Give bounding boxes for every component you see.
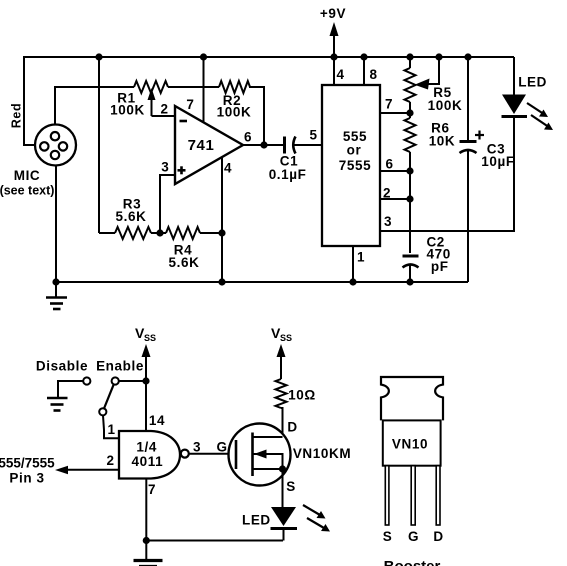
svg-text:Disable: Disable bbox=[36, 359, 88, 374]
node pin7/R5/R6 junction bbox=[406, 109, 413, 116]
label Vss (4011) bbox=[135, 325, 156, 343]
label pin 3 (4011) bbox=[193, 440, 201, 455]
wire red lead from rail to MIC bbox=[23, 56, 35, 145]
label 555/7555 bbox=[0, 456, 55, 471]
node R4 right junction bbox=[218, 229, 225, 236]
svg-text:2: 2 bbox=[161, 102, 169, 117]
label R2 bbox=[223, 93, 241, 108]
node R5 rail junction bbox=[406, 53, 413, 60]
LED D2 bbox=[271, 507, 298, 541]
NAND gate U3 1/4 4011 bbox=[119, 431, 189, 479]
svg-text:6: 6 bbox=[386, 157, 394, 172]
label R5 100K bbox=[428, 98, 463, 113]
label Red (rotated) bbox=[10, 103, 24, 128]
label pin 7 (4011) bbox=[148, 482, 156, 497]
svg-text:pF: pF bbox=[431, 259, 449, 274]
label R4 bbox=[174, 243, 192, 258]
label R6 10K bbox=[429, 134, 456, 149]
svg-text:3: 3 bbox=[193, 440, 201, 455]
label pin 6 (555) bbox=[386, 157, 394, 172]
label pin 1 (4011) bbox=[107, 422, 115, 437]
svg-text:7: 7 bbox=[385, 97, 393, 112]
svg-text:6: 6 bbox=[244, 130, 252, 145]
label or bbox=[347, 143, 362, 158]
wire R2 right drop to output bbox=[249, 86, 264, 145]
node R5 wiper rail junction bbox=[435, 53, 442, 60]
svg-text:10µF: 10µF bbox=[481, 154, 514, 169]
node pin8 rail junction bbox=[360, 53, 367, 60]
label VN10 bbox=[392, 437, 428, 452]
wire enable to Vss line bbox=[119, 380, 147, 382]
label pin 7 (741) bbox=[186, 97, 194, 112]
svg-text:1: 1 bbox=[357, 250, 365, 265]
label G bbox=[216, 440, 227, 455]
svg-text:100K: 100K bbox=[428, 98, 463, 113]
wire disable to ground bbox=[58, 380, 84, 397]
svg-text:100K: 100K bbox=[110, 103, 145, 118]
wire ground rail bbox=[56, 281, 468, 283]
label minus input bbox=[180, 120, 188, 123]
microphone MIC bbox=[35, 125, 76, 166]
label R3 bbox=[123, 197, 141, 212]
svg-text:5: 5 bbox=[310, 128, 318, 143]
wire op-amp output pin 6 bbox=[243, 144, 284, 146]
svg-text:G: G bbox=[216, 440, 227, 455]
R1 wiper arrow to pin 2 bbox=[148, 88, 156, 116]
resistor R1 bbox=[134, 81, 168, 93]
svg-text:S: S bbox=[286, 479, 296, 494]
label (see text) bbox=[0, 184, 54, 198]
svg-text:Pin 3: Pin 3 bbox=[9, 471, 44, 486]
resistor R4 bbox=[166, 227, 200, 239]
wire switch pole to pin 1 bbox=[103, 415, 119, 438]
node gate ground junction bbox=[143, 537, 150, 544]
wire pin 8 (555) bbox=[363, 57, 365, 85]
wire R1-R2 node bbox=[168, 86, 219, 88]
wire op-amp pin 3 bbox=[160, 174, 175, 233]
LED D2 light arrows bbox=[303, 505, 330, 532]
svg-text:0.1µF: 0.1µF bbox=[269, 167, 307, 182]
label R1 bbox=[117, 91, 135, 106]
wire gate output to MOSFET gate bbox=[189, 453, 236, 455]
svg-text:MIC: MIC bbox=[14, 168, 41, 183]
label pin 14 bbox=[149, 413, 165, 428]
package leg S bbox=[385, 466, 389, 525]
label pin 8 (555) bbox=[369, 67, 377, 82]
switch disable contact bbox=[83, 377, 90, 384]
label LED (top) bbox=[518, 75, 547, 90]
LED D1 light arrows bbox=[527, 103, 553, 130]
label LED (bottom) bbox=[242, 513, 271, 528]
svg-text:VN10: VN10 bbox=[392, 437, 428, 452]
svg-text:10K: 10K bbox=[429, 134, 456, 149]
resistor R3 bbox=[115, 227, 151, 239]
label R4 5.6K bbox=[169, 255, 200, 270]
label D (package) bbox=[433, 529, 443, 544]
label R2 100K bbox=[217, 105, 252, 120]
label 4011 bbox=[132, 454, 164, 469]
wire bottom ground rail bbox=[146, 540, 283, 542]
wire MIC top lead bbox=[54, 87, 134, 125]
svg-text:D: D bbox=[433, 529, 443, 544]
package leg G bbox=[411, 466, 415, 525]
svg-text:7: 7 bbox=[186, 97, 194, 112]
label Booster bbox=[384, 558, 441, 566]
wire op-amp pin 7 bbox=[203, 57, 205, 123]
label pin 2 (4011) bbox=[107, 453, 115, 468]
svg-text:1: 1 bbox=[107, 422, 115, 437]
svg-text:5.6K: 5.6K bbox=[116, 209, 147, 224]
label 10 ohm bbox=[288, 388, 316, 403]
svg-text:(see text): (see text) bbox=[0, 184, 54, 198]
wire pin 6 stub bbox=[380, 170, 410, 172]
svg-text:2: 2 bbox=[107, 453, 115, 468]
svg-text:7555: 7555 bbox=[339, 158, 371, 173]
svg-text:Red: Red bbox=[10, 103, 24, 128]
label R5 bbox=[433, 85, 451, 100]
node R3R4 junction a bbox=[156, 229, 163, 236]
capacitor C2 bbox=[403, 256, 419, 282]
wire +9V stem bbox=[330, 22, 339, 85]
wire C1 to pin 5 bbox=[295, 144, 323, 146]
label pin 6 (741) bbox=[244, 130, 252, 145]
label pin 4 (741) bbox=[224, 161, 232, 176]
ground symbol G3 bbox=[134, 541, 163, 566]
svg-text:Enable: Enable bbox=[96, 359, 144, 374]
label C2 bbox=[426, 235, 444, 250]
wire drain lead bbox=[281, 407, 283, 437]
wire pin 3 to LED bbox=[380, 230, 514, 232]
label VN10KM bbox=[293, 446, 351, 461]
label Disable bbox=[36, 359, 88, 374]
label C1 0.1uF bbox=[269, 167, 307, 182]
resistor R2 bbox=[219, 81, 250, 93]
svg-text:LED: LED bbox=[242, 513, 271, 528]
capacitor C3 bbox=[460, 57, 477, 282]
label pin 7 (555) bbox=[385, 97, 393, 112]
label pin 2 (741) bbox=[161, 102, 169, 117]
label C2 pF bbox=[431, 259, 449, 274]
package tab outline bbox=[381, 377, 443, 420]
capacitor C1 bbox=[285, 137, 296, 154]
label D bbox=[287, 420, 297, 435]
label pin 2 (555) bbox=[383, 186, 391, 201]
wire op-amp pin 2 bbox=[152, 115, 176, 117]
wire pin 2 to 555 pin 3 bbox=[55, 466, 119, 474]
label plus input bbox=[178, 166, 186, 174]
svg-text:7: 7 bbox=[148, 482, 156, 497]
wire pin 7 stub bbox=[380, 112, 410, 114]
svg-text:5.6K: 5.6K bbox=[169, 255, 200, 270]
label 7555 bbox=[339, 158, 371, 173]
label R3 5.6K bbox=[116, 209, 147, 224]
label +9V bbox=[320, 6, 346, 21]
wire MIC bottom lead bbox=[55, 165, 57, 282]
svg-text:10Ω: 10Ω bbox=[288, 388, 316, 403]
label R6 bbox=[431, 121, 449, 136]
svg-text:14: 14 bbox=[149, 413, 165, 428]
node pin4 ground junction bbox=[218, 278, 225, 285]
transistor Q1 VN10KM bbox=[229, 424, 291, 486]
package leg D bbox=[436, 466, 440, 525]
wire vertical feedback column x99 bbox=[98, 57, 100, 233]
svg-text:+9V: +9V bbox=[320, 6, 346, 21]
node enable junction bbox=[142, 377, 149, 384]
label 555 bbox=[343, 129, 367, 144]
node C3 rail junction bbox=[464, 53, 471, 60]
switch enable contact bbox=[112, 377, 119, 384]
node MIC ground junction bbox=[52, 278, 59, 285]
svg-text:4: 4 bbox=[337, 67, 345, 82]
label pin 3 (741) bbox=[161, 160, 169, 175]
wire R3 rail bbox=[99, 232, 222, 234]
label pin 5 (555) bbox=[310, 128, 318, 143]
node output junction bbox=[260, 141, 267, 148]
label C3 plus bbox=[475, 131, 484, 140]
svg-text:SS: SS bbox=[280, 333, 292, 343]
svg-text:S: S bbox=[383, 529, 393, 544]
resistor R7 10 ohm bbox=[276, 379, 287, 408]
svg-text:3: 3 bbox=[161, 160, 169, 175]
node +9V rail junction bbox=[330, 53, 337, 60]
label pin 1 (555) bbox=[357, 250, 365, 265]
wire Vss to 10ohm bbox=[277, 344, 286, 379]
svg-text:LED: LED bbox=[518, 75, 547, 90]
label C2 470 bbox=[427, 247, 451, 262]
wire pin 2 stub bbox=[380, 198, 410, 200]
resistor R6 bbox=[405, 113, 416, 253]
svg-text:G: G bbox=[408, 529, 419, 544]
label C1 bbox=[280, 154, 298, 169]
svg-text:4: 4 bbox=[224, 161, 232, 176]
svg-text:VN10KM: VN10KM bbox=[293, 446, 351, 461]
svg-text:Booster: Booster bbox=[384, 558, 441, 566]
label R1 100K bbox=[110, 103, 145, 118]
R5 wiper arrow bbox=[415, 57, 441, 90]
node pin6 junction bbox=[406, 167, 413, 174]
wire pin 7 (4011) bbox=[145, 479, 147, 541]
svg-text:8: 8 bbox=[369, 67, 377, 82]
label pin 3 (555) bbox=[384, 214, 392, 229]
resistor R5 bbox=[405, 57, 416, 113]
node pin7 rail junction bbox=[200, 53, 207, 60]
svg-text:100K: 100K bbox=[217, 105, 252, 120]
node C2 ground junction bbox=[406, 278, 413, 285]
op-amp U1 741 bbox=[175, 106, 243, 184]
label C3 bbox=[487, 142, 505, 157]
svg-text:SS: SS bbox=[144, 333, 156, 343]
wire pin 1 (555) bbox=[352, 246, 354, 282]
ground symbol G1 bbox=[46, 282, 67, 309]
wire source lead bbox=[282, 469, 284, 508]
svg-text:4011: 4011 bbox=[132, 454, 164, 469]
label pin 4 (555) bbox=[337, 67, 345, 82]
wire op-amp pin 4 bbox=[221, 157, 223, 282]
label S bbox=[286, 479, 296, 494]
svg-text:2: 2 bbox=[383, 186, 391, 201]
package body VN10 bbox=[383, 420, 441, 465]
wire top +9V rail bbox=[24, 56, 514, 58]
label 741 bbox=[188, 137, 215, 154]
label Pin 3 bbox=[9, 471, 44, 486]
svg-text:3: 3 bbox=[384, 214, 392, 229]
IC U2 555 bbox=[322, 85, 380, 246]
svg-text:D: D bbox=[287, 420, 297, 435]
ground symbol G2 bbox=[47, 398, 68, 411]
svg-text:or: or bbox=[347, 143, 362, 158]
label Vss (MOSFET) bbox=[271, 325, 292, 343]
LED D1 bbox=[502, 57, 528, 232]
label S (package) bbox=[383, 529, 393, 544]
label 1/4 bbox=[136, 440, 157, 455]
node pin1 ground junction bbox=[349, 278, 356, 285]
switch S1 lever bbox=[99, 384, 114, 415]
label G (package) bbox=[408, 529, 419, 544]
node pin2 junction bbox=[406, 195, 413, 202]
svg-text:1/4: 1/4 bbox=[136, 440, 157, 455]
wire Vss to pin 14 bbox=[142, 344, 151, 431]
label MIC bbox=[14, 168, 41, 183]
label C3 10uF bbox=[481, 154, 514, 169]
svg-text:555/7555: 555/7555 bbox=[0, 456, 55, 471]
node rail/red junction bbox=[95, 53, 102, 60]
label Enable bbox=[96, 359, 144, 374]
svg-text:741: 741 bbox=[188, 137, 215, 154]
